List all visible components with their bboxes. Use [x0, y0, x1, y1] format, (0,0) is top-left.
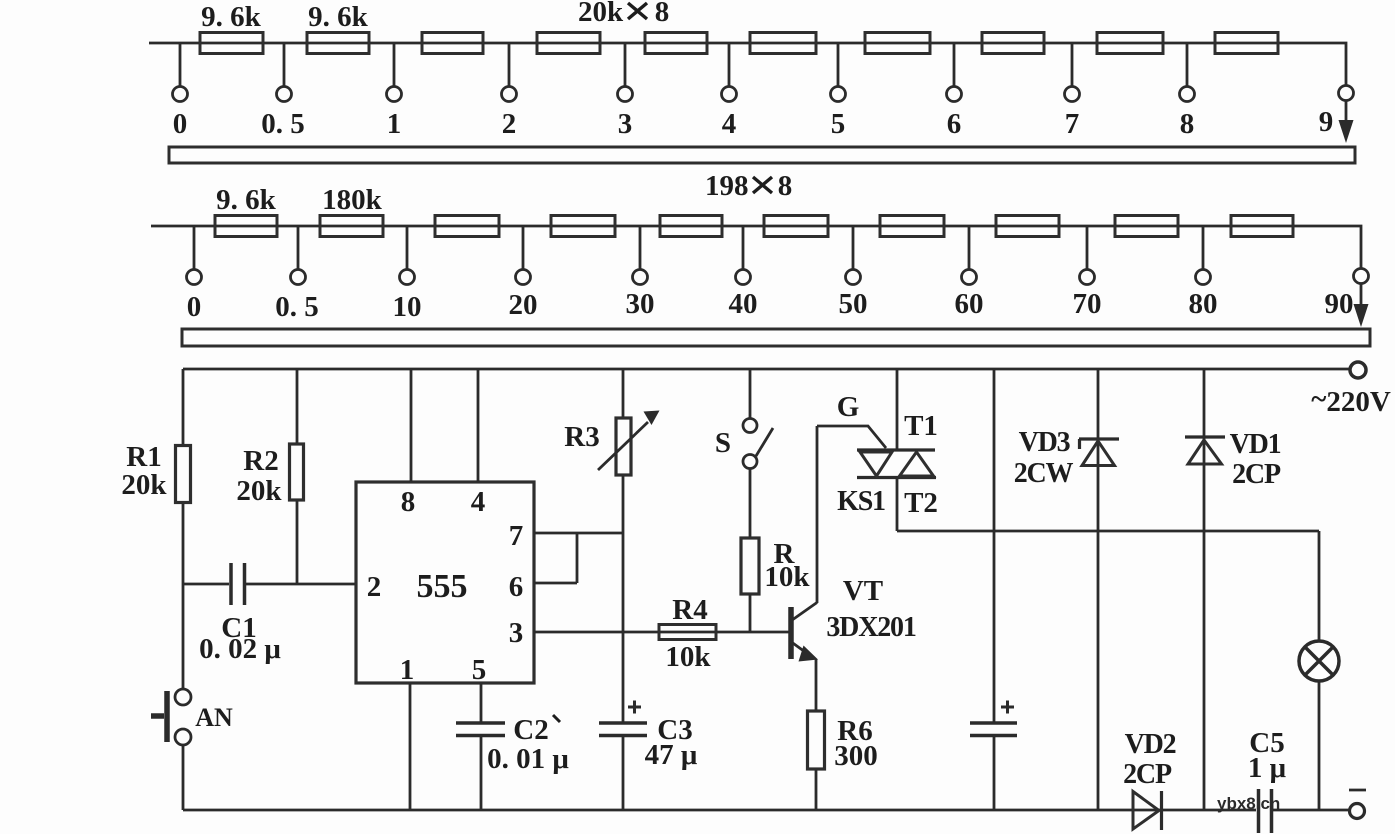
svg-text:T2: T2 — [904, 487, 938, 519]
svg-text:0: 0 — [173, 108, 188, 140]
svg-text:0. 5: 0. 5 — [275, 291, 319, 323]
svg-text:6: 6 — [947, 108, 962, 140]
svg-text:2CP: 2CP — [1123, 759, 1172, 790]
svg-text:ybx8.cn: ybx8.cn — [1217, 794, 1280, 813]
svg-text:2: 2 — [367, 571, 382, 603]
svg-text:G: G — [837, 391, 860, 423]
svg-text:0. 01 μ: 0. 01 μ — [487, 743, 569, 775]
svg-text:47 μ: 47 μ — [645, 739, 698, 771]
svg-text:3: 3 — [509, 617, 524, 649]
svg-text:9: 9 — [1319, 106, 1334, 138]
svg-text:1 μ: 1 μ — [1248, 752, 1287, 784]
svg-text:AN: AN — [195, 703, 233, 732]
svg-text:9. 6k: 9. 6k — [216, 184, 277, 216]
svg-text:7: 7 — [1065, 108, 1080, 140]
svg-text:C2: C2 — [513, 714, 548, 746]
svg-text:1: 1 — [387, 108, 402, 140]
svg-text:20k: 20k — [578, 0, 624, 28]
svg-text:60: 60 — [955, 288, 984, 320]
svg-text:R2: R2 — [243, 445, 278, 477]
svg-text:555: 555 — [417, 568, 468, 605]
svg-text:5: 5 — [831, 108, 846, 140]
svg-text:S: S — [715, 427, 731, 459]
svg-text:2CP: 2CP — [1232, 459, 1281, 490]
svg-text:0. 02 μ: 0. 02 μ — [199, 633, 281, 665]
svg-text:R3: R3 — [564, 421, 599, 453]
svg-text:KS1: KS1 — [837, 486, 885, 517]
svg-text:10: 10 — [393, 291, 422, 323]
svg-text:4: 4 — [471, 486, 486, 518]
svg-text:20k: 20k — [236, 475, 282, 507]
svg-text:8: 8 — [655, 0, 670, 28]
svg-text:0: 0 — [187, 291, 202, 323]
svg-text:VD3: VD3 — [1019, 427, 1071, 458]
svg-text:20k: 20k — [121, 469, 167, 501]
svg-text:4: 4 — [722, 108, 737, 140]
svg-text:~220V: ~220V — [1311, 383, 1391, 418]
svg-text:1: 1 — [400, 654, 415, 686]
svg-text:20: 20 — [509, 289, 538, 321]
svg-text:198: 198 — [705, 170, 749, 202]
svg-text:180k: 180k — [322, 184, 383, 216]
svg-text:300: 300 — [834, 740, 878, 772]
svg-text:3DX201: 3DX201 — [826, 612, 915, 643]
svg-text:50: 50 — [839, 288, 868, 320]
svg-text:2CW: 2CW — [1014, 458, 1074, 489]
svg-text:9. 6k: 9. 6k — [201, 1, 262, 33]
svg-text:40: 40 — [729, 288, 758, 320]
svg-text:0. 5: 0. 5 — [261, 108, 305, 140]
svg-text:90: 90 — [1325, 288, 1354, 320]
svg-text:70: 70 — [1073, 288, 1102, 320]
svg-text:5: 5 — [472, 654, 487, 686]
svg-text:80: 80 — [1189, 288, 1218, 320]
svg-text:9. 6k: 9. 6k — [308, 1, 369, 33]
svg-text:8: 8 — [1180, 108, 1195, 140]
svg-text:2: 2 — [502, 108, 517, 140]
svg-text:7: 7 — [509, 520, 524, 552]
svg-text:10k: 10k — [665, 641, 711, 673]
svg-text:6: 6 — [509, 571, 524, 603]
svg-text:8: 8 — [401, 486, 416, 518]
svg-text:R4: R4 — [672, 594, 707, 626]
svg-text:3: 3 — [618, 108, 633, 140]
svg-text:VT: VT — [843, 575, 883, 607]
svg-text:VD2: VD2 — [1125, 729, 1176, 760]
svg-text:30: 30 — [626, 288, 655, 320]
svg-text:10k: 10k — [764, 561, 810, 593]
svg-text:8: 8 — [778, 170, 793, 202]
svg-text:T1: T1 — [904, 410, 938, 442]
svg-text:VD1: VD1 — [1230, 429, 1281, 460]
